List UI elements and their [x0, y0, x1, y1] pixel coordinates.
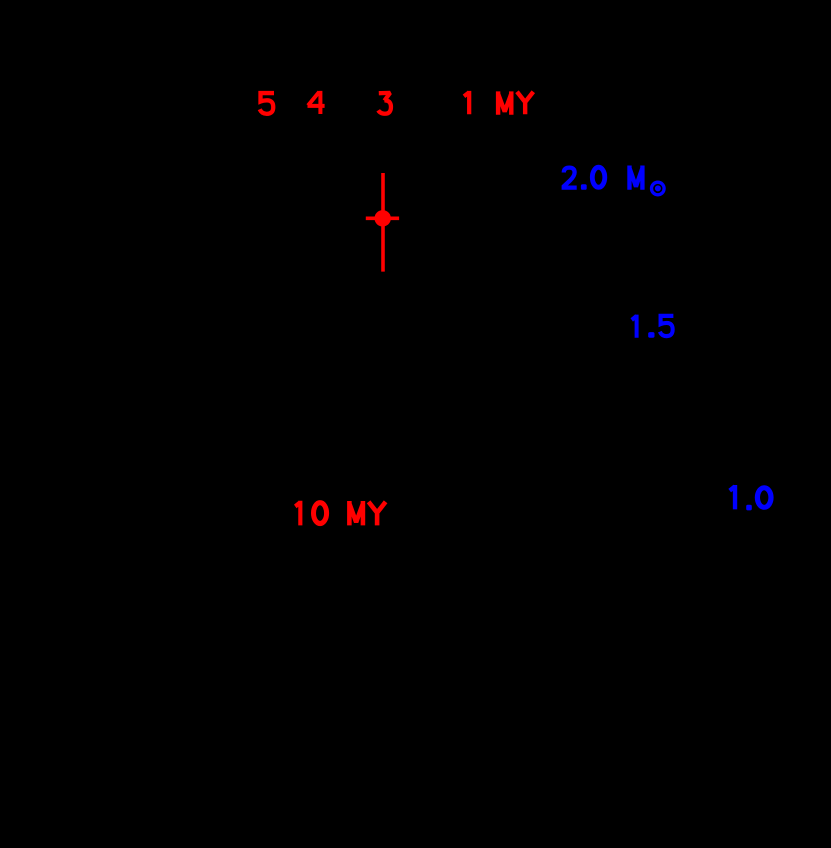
data point horizontal error bar [366, 217, 399, 221]
digit 1 of "1.5" [632, 315, 637, 338]
solar-mass sun symbol ring [652, 182, 665, 195]
digit 1 of "10 MY" [295, 501, 300, 526]
solar-mass sun symbol center dot [655, 185, 661, 191]
digit 2 of "2.0" [562, 168, 577, 188]
digit 5 of "1.5" [660, 316, 674, 336]
letter Y of "10 MY" [369, 502, 386, 526]
decimal point of "1.0" [746, 505, 752, 511]
data point vertical error bar [381, 173, 385, 272]
letter Y of "1 MY" [517, 92, 533, 114]
digit 0 of "2.0" [592, 167, 604, 187]
label "4" [308, 91, 325, 114]
letter M (solar mass) [629, 166, 642, 190]
data point marker dot [375, 210, 391, 226]
decimal point of "2.0" [581, 184, 587, 190]
digit 0 of "1.0" [757, 488, 771, 508]
digit 0 of "10 MY" [314, 503, 327, 524]
decimal point of "1.5" [648, 332, 654, 338]
label "3" [378, 93, 391, 114]
label "5" [260, 93, 274, 114]
letter M of "1 MY" [498, 91, 511, 114]
digit 1 of "1.0" [730, 485, 735, 509]
label "1" of "1 MY" [464, 91, 469, 114]
letter M of "10 MY" [349, 501, 363, 525]
